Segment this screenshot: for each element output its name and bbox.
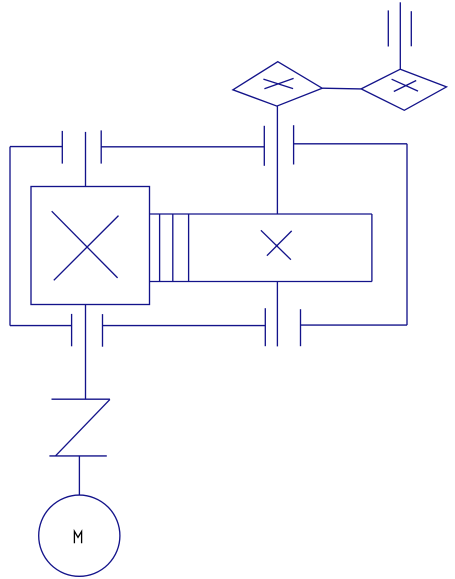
bearing B4 (lower bearing of shaft II) — [265, 308, 300, 346]
shaft IV (vertical output shaft, top right) — [399, 2, 401, 69]
motor M (electric motor circle) — [39, 495, 120, 576]
node: gear Z2 centre mark — [276, 245, 278, 247]
shaft II lower segment (below gear Z2 through bearing B4) — [276, 282, 278, 347]
motor shaft stub — [78, 456, 80, 495]
gear Z2 (long pinion rectangle on shaft II) — [150, 214, 372, 282]
housing top edge, left segment — [10, 146, 62, 148]
housing bottom edge, middle segment — [103, 325, 266, 327]
coupling (elastic coupling, Z symbol) — [49, 399, 110, 456]
gear Z1 (large spur gear, crossed square) — [31, 187, 150, 305]
spline / tooth section lines between Z1 and Z2 — [160, 214, 189, 282]
housing bottom edge, right segment — [301, 324, 408, 326]
shaft I lower segment (from gear Z1 down to coupling) — [85, 305, 87, 400]
bearing B1 (upper bearing of shaft I) — [62, 130, 101, 163]
bevel gear Z4 (right diamond) — [361, 69, 446, 110]
housing right wall — [406, 144, 408, 325]
label M (motor letter) — [74, 531, 81, 543]
shaft II upper segment (from bevel gear Z3 down to gear Z2) — [276, 106, 278, 214]
housing bottom edge, left segment — [10, 325, 72, 327]
bearing B3 (upper bearing of shaft II) — [264, 125, 293, 166]
bearing B2 (lower bearing of shaft I) — [72, 314, 103, 347]
bevel gear Z3 (left diamond) — [233, 62, 322, 106]
housing top edge, middle segment — [101, 146, 264, 148]
shaft I upper segment (through bearing B1 to gear Z1) — [85, 132, 87, 187]
shaft III (horizontal link between bevel gears) — [322, 87, 361, 90]
bearing B5 (top right shaft bearing) — [388, 10, 411, 46]
housing left wall — [9, 147, 11, 326]
housing top edge, right segment — [294, 143, 407, 145]
